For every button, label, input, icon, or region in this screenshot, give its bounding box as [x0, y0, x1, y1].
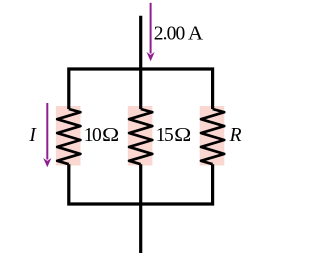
svg-text:15: 15: [156, 125, 173, 146]
svg-text:Ω: Ω: [174, 125, 191, 146]
wire input lead carrying 2.00 A into top rail: [139, 16, 142, 109]
wire bottom rail (node B) with risers from resistors: [69, 164, 213, 204]
resistor 15-ohm zigzag: [129, 109, 152, 164]
current arrow I: [43, 103, 51, 167]
resistor R highlight box: [200, 106, 225, 166]
svg-text:R: R: [229, 125, 242, 146]
wire output lead from bottom rail: [139, 164, 142, 253]
svg-text:Ω: Ω: [102, 125, 119, 146]
wire top rail (node A) with drops to resistors: [69, 69, 213, 109]
svg-text:2.00: 2.00: [154, 24, 185, 45]
svg-text:10: 10: [84, 125, 101, 146]
resistor R zigzag: [201, 109, 224, 164]
resistor 10-ohm highlight box: [56, 106, 81, 166]
current arrow 2.00 A: [147, 3, 155, 61]
resistor 15-ohm highlight box: [128, 106, 153, 166]
svg-text:A: A: [188, 24, 203, 45]
resistor 10-ohm zigzag: [57, 109, 80, 164]
